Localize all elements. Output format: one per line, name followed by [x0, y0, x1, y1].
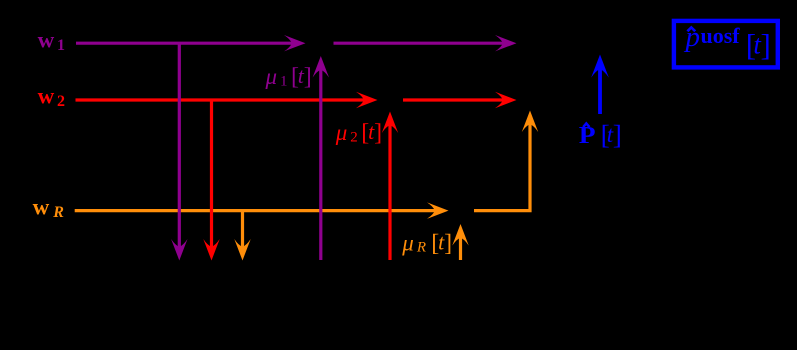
label p hat uosf [t]: [684, 21, 771, 63]
arrowhead P estimate up: [591, 54, 609, 77]
tap wire wR down: [241, 211, 244, 248]
svg-text:1: 1: [57, 37, 65, 54]
svg-text:]: ]: [613, 119, 622, 150]
wire mu2 up arrow: [388, 124, 391, 260]
svg-text:]: ]: [761, 28, 771, 63]
arrowhead w1 segment 2: [495, 35, 517, 51]
wire w2 segment 1: [76, 98, 366, 101]
label mu1[t]: [265, 63, 312, 90]
svg-text:R: R: [52, 204, 64, 221]
svg-text:w: w: [33, 194, 50, 219]
label w2: [38, 83, 65, 110]
wire wR elbow to sum: [474, 123, 530, 211]
arrowhead w2 segment 2: [495, 92, 517, 108]
wire P estimate up arrow: [598, 67, 602, 114]
svg-text:R: R: [416, 240, 426, 256]
svg-text:]: ]: [304, 64, 312, 90]
arrowhead w1 segment 1: [284, 35, 306, 51]
arrowhead mu1 up: [313, 56, 329, 78]
svg-text:μ: μ: [335, 120, 348, 145]
wire muR up arrow: [459, 236, 462, 260]
arrowhead muR up: [452, 224, 468, 246]
wire w2 segment 2: [403, 98, 504, 101]
svg-text:]: ]: [444, 231, 452, 257]
svg-text:2: 2: [57, 93, 65, 110]
arrowhead wR segment 1: [427, 202, 449, 218]
tap wire w2 down: [210, 100, 213, 248]
svg-text:p: p: [684, 21, 701, 53]
label w1: [38, 27, 65, 54]
wire mu1 up arrow: [319, 68, 322, 260]
box P uosf: [674, 21, 778, 68]
svg-text:uosf: uosf: [701, 23, 741, 48]
svg-text:μ: μ: [265, 64, 278, 89]
arrowhead tap wR down: [234, 239, 250, 261]
arrowhead mu2 up: [382, 112, 398, 134]
svg-text:]: ]: [374, 120, 382, 146]
wire wR segment 1: [75, 209, 436, 212]
arrowhead tap w1 down: [171, 239, 187, 261]
svg-text:μ: μ: [401, 231, 414, 256]
svg-text:1: 1: [280, 74, 288, 90]
label P hat [t]: [579, 119, 622, 150]
svg-text:w: w: [38, 27, 55, 52]
arrowhead tap w2 down: [203, 239, 219, 261]
svg-text:2: 2: [350, 130, 358, 146]
wire w1 segment 2: [334, 42, 505, 45]
tap wire w1 down: [178, 43, 181, 248]
svg-text:P: P: [579, 123, 596, 149]
arrowhead wR elbow up: [522, 111, 538, 133]
svg-text:w: w: [38, 83, 55, 108]
label muR[t]: [401, 230, 452, 257]
arrowhead w2 segment 1: [356, 92, 378, 108]
label wR: [33, 194, 65, 221]
label mu2[t]: [335, 119, 382, 146]
wire w1 segment 1: [76, 42, 293, 45]
